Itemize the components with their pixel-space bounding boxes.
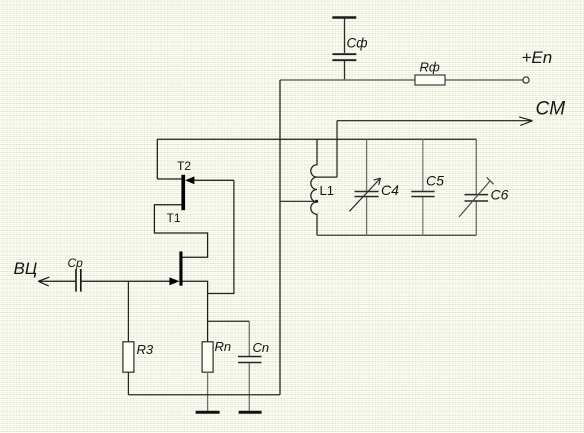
capacitor Cp plates [76,269,81,292]
wire (input to Cp) [38,280,75,282]
svg-text:Cn: Cn [253,340,270,355]
ground (below Rn) [196,411,220,414]
ground (top bar of Cf) [332,16,356,18]
wire (ground bar to Cf top plate) [344,19,346,54]
svg-text:L1: L1 [320,183,334,198]
wire (Cn top stem) [248,321,250,356]
svg-text:C6: C6 [491,187,509,203]
terminal +En circle [523,77,529,83]
capacitor C5 plates [411,192,434,197]
node coil tap junction [315,200,318,203]
svg-text:T2: T2 [177,159,191,173]
transistor T1 gate arrow [169,277,179,285]
capacitor C4 plates [355,192,379,197]
resistor Rf [415,75,445,85]
node CM output arrow [337,117,533,126]
inductor L1 [311,139,317,235]
wire (Cp to T1 gate) [82,280,171,282]
wire (T2 drain zigzag to T1 drain) [154,205,207,258]
wire (long vertical from +En rail down to bottom wire) [279,80,281,395]
wire (T1 source to emitter node) [183,281,208,342]
wire (R3 top stem) [127,281,129,342]
wire (supply vertical to coil tap between turn 3-4) [280,200,317,202]
wire (left vertical from top bus down to T2 gate) [156,139,158,179]
svg-text:CM: CM [536,99,566,120]
transistor T2 source arrow [185,176,194,184]
C6 trimmer diagonal with tick [459,177,494,217]
svg-text:T1: T1 [167,211,181,225]
svg-text:ВЦ: ВЦ [14,259,38,278]
C4 variable arrow [349,178,380,211]
wire +En rail [280,79,523,81]
transistor T2 bar [181,175,185,210]
wire (emitter node branch to Cn) [208,320,250,322]
capacitor Cf plates [332,54,356,60]
capacitor C6 (trimmer) stems / tank right edge [475,139,477,235]
svg-text:R3: R3 [137,342,154,357]
wire (T2 arrow to right vertical) [194,179,234,181]
ground (below Cn) [239,411,262,414]
capacitor Cn plates [238,357,262,363]
svg-text:Rф: Rф [420,60,440,75]
resistor R3 [123,342,134,372]
wire (top bus from left circuit to tank) [157,138,476,140]
wire (right vertical down to T1 source node) [208,180,234,293]
transistor T1 bar [179,252,182,286]
wire (R3 bottom stem) [127,372,129,395]
capacitor C6 plates [465,195,489,201]
capacitor C4 (variable) stems [366,139,368,235]
wire (CM tap down to coil tap) [336,121,338,177]
wire (coil tap after first turn to CM vertical) [317,176,337,178]
svg-text:Cp: Cp [68,256,84,270]
wire (bottom bus R3 to supply vertical) [128,394,280,396]
resistor Rn [202,342,213,372]
svg-text:Cф: Cф [347,36,368,51]
node VC input arrow [38,277,49,286]
svg-text:C4: C4 [381,182,399,198]
svg-text:+En: +En [522,48,553,67]
capacitor C5 stems [422,139,424,235]
svg-text:Rn: Rn [215,339,232,354]
wire (Cf bottom plate to +En rail) [344,61,346,80]
wire (tank bottom bus) [317,234,476,236]
wire (Cn bottom stem to ground) [248,363,250,411]
svg-text:C5: C5 [426,173,444,189]
wire (Rn bottom stem to ground) [207,372,209,411]
wire (T2 gate wire) [157,178,181,180]
